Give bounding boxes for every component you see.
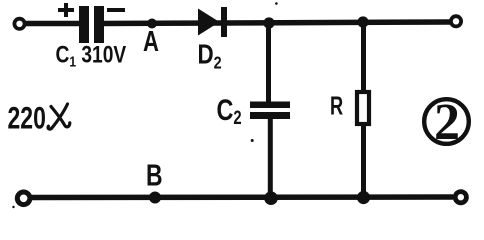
node A xyxy=(147,19,157,29)
wire C2 upper branch xyxy=(266,23,271,102)
svg-text:2: 2 xyxy=(434,94,460,151)
wire R upper branch xyxy=(361,22,366,92)
ink speck xyxy=(275,2,278,5)
wire top-middle segment (C1 through node A and diode to right terminal) xyxy=(104,22,451,24)
ink speck xyxy=(12,206,14,208)
junction node top above C2 xyxy=(263,17,274,28)
terminal bottom-left xyxy=(17,192,30,205)
terminal top-right xyxy=(451,16,461,26)
junction node bottom below C2 xyxy=(264,191,278,205)
wire bottom segment xyxy=(31,194,453,200)
terminal top-left xyxy=(14,19,24,29)
svg-text:C1 310V: C1 310V xyxy=(56,40,127,69)
ink speck xyxy=(251,139,254,142)
svg-text:B: B xyxy=(146,157,163,192)
wire R lower branch xyxy=(361,124,366,197)
junction node bottom below R xyxy=(357,191,370,204)
junction node top above R xyxy=(357,16,368,27)
wire top-left segment (terminal to C1) xyxy=(25,21,79,27)
svg-text:220: 220 xyxy=(8,100,46,135)
wire C2 lower branch xyxy=(268,118,273,197)
resistor R xyxy=(357,92,369,124)
glyph V (handwritten chi-style volt mark) xyxy=(48,104,70,129)
terminal bottom-right xyxy=(455,192,466,203)
plus polarity mark xyxy=(58,3,74,17)
svg-text:R: R xyxy=(330,91,343,120)
capacitor C1 xyxy=(79,6,104,43)
capacitor C2 xyxy=(250,102,290,120)
minus polarity mark xyxy=(107,8,125,12)
svg-text:A: A xyxy=(143,26,159,58)
schematic number 2 in circle xyxy=(424,94,469,151)
diode D2 xyxy=(198,7,227,37)
node B xyxy=(149,192,161,204)
